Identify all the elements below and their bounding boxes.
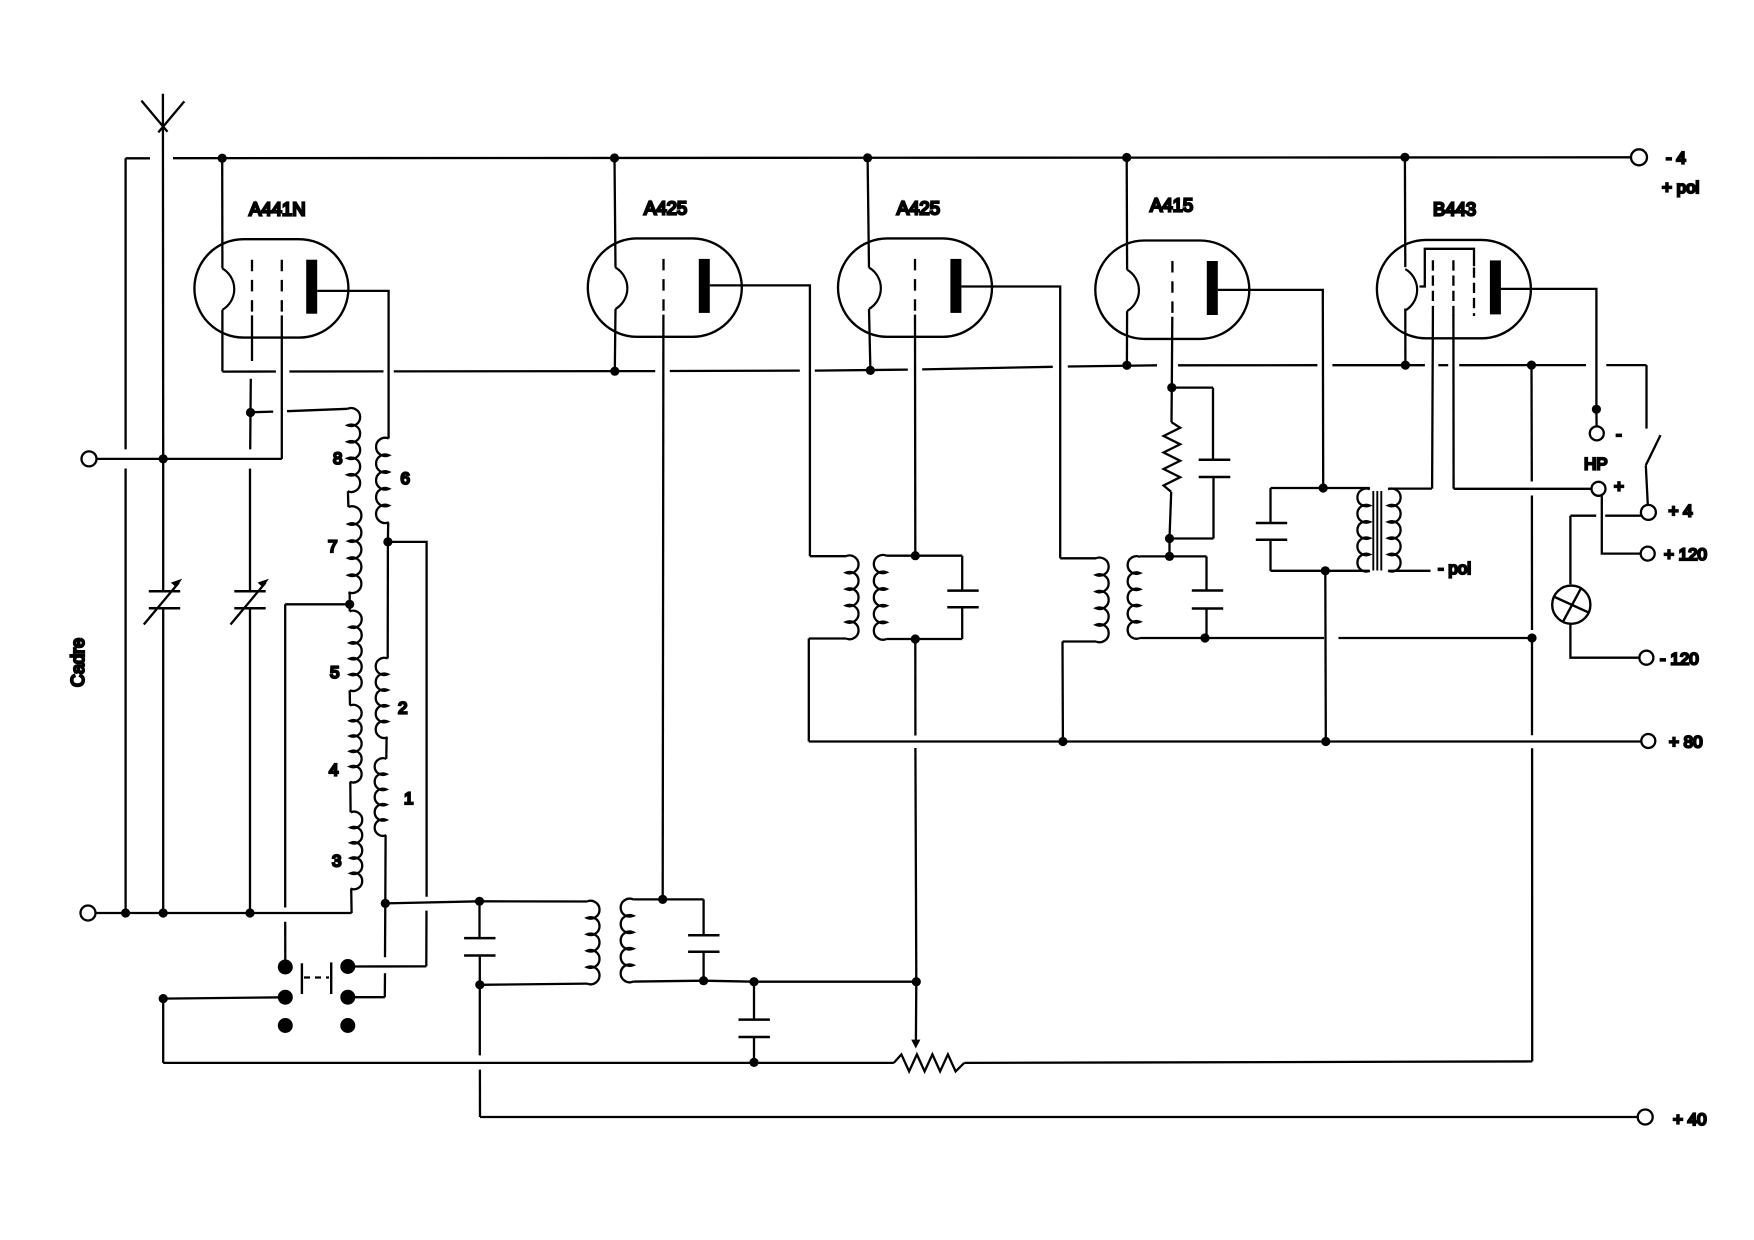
junction V3 grid / IFT1 secondary [911, 551, 920, 560]
svg-text:+ 40: + 40 [1673, 1110, 1707, 1129]
IFT2 primary top lead [1060, 557, 1096, 559]
coil 3 [351, 812, 363, 890]
IFT2 primary bottom lead [1063, 640, 1097, 642]
wire V3 filament bottom [869, 309, 870, 370]
junction tap 7/5 [345, 600, 354, 609]
AF coupling secondary top lead [633, 898, 703, 900]
wire +40 line [480, 1116, 1638, 1118]
wire IFT1 primary to +80 [808, 639, 810, 742]
svg-text:8: 8 [333, 449, 342, 468]
wire +80 line [809, 740, 1642, 742]
terminal cadre lower [81, 906, 96, 921]
grid leak resistor R1 [1170, 388, 1173, 423]
wire junction down to switch contact row [384, 903, 387, 957]
variable capacitor CV1 (antenna circuit) [162, 459, 164, 591]
wire bottom node to potentiometer arrow drop [754, 981, 916, 983]
variable capacitor CV2 (grid circuit) [249, 469, 251, 592]
AF transformer core [1372, 491, 1374, 571]
wire V1 grid1 to CV2 [249, 413, 252, 450]
wire V3 anode to IFT2 primary [961, 287, 1060, 559]
wire tap to reaction switch column [285, 603, 350, 605]
svg-text:A441N: A441N [249, 199, 306, 220]
terminal HP minus [1590, 426, 1604, 440]
tube V3 A425 grid 1 (dashed) [914, 259, 916, 315]
AF coupling primary bottom lead [480, 984, 587, 985]
tube V2 A425 envelope [588, 238, 742, 336]
wire filament bus to switch [1645, 365, 1647, 429]
tube V1 A441N anode plate [306, 260, 317, 314]
junction pot arrow wire [912, 977, 921, 986]
wire grid network to IFT2 secondary [1168, 539, 1170, 557]
svg-text:Cadre: Cadre [68, 638, 88, 687]
AF secondary top lead to B443 grid [1388, 487, 1432, 489]
node -4/+pol top supply bus [126, 157, 150, 159]
junction antenna / cadre upper wire [159, 454, 168, 463]
svg-text:+ 120: + 120 [1664, 545, 1707, 564]
svg-text:A425: A425 [644, 198, 687, 219]
tube V4 A415 grid 1 (dashed) [1171, 261, 1173, 317]
AF secondary bottom lead -pol [1388, 570, 1430, 572]
wire coil2-coil1 [385, 737, 388, 759]
AF transformer primary bottom lead [1271, 570, 1370, 572]
junction IFT2 bottom lead / right drop wire [1527, 633, 1536, 642]
coil 6 [376, 438, 389, 523]
junction CV1 column / B1 wire [159, 994, 168, 1003]
coil 2 [376, 658, 388, 738]
wire coil1 bottom [384, 835, 387, 903]
coupling secondary bottom lead [633, 981, 754, 982]
wire coil5-coil4 [349, 690, 352, 705]
switch link dashed coupling [304, 976, 329, 978]
wire V4 filament top [1126, 158, 1129, 270]
wire V1 filament bottom to filament bus [221, 310, 223, 372]
wire filament bus (cathode return) [222, 370, 276, 372]
svg-text:- 120: - 120 [1660, 650, 1699, 669]
junction filament bus / A425-2 [866, 366, 875, 375]
IFT1 primary top lead [810, 555, 846, 557]
tube V5 grid 2 (dashed) [1452, 260, 1454, 316]
tube V4 A415 filament (cathode) [1127, 270, 1139, 311]
junction A415 grid network / IFT2 secondary [1165, 552, 1174, 561]
wire V1 grid1 down [251, 315, 253, 361]
junction V4 grid / grid-leak [1167, 383, 1176, 392]
wire CV1 column to bottom bus [162, 999, 164, 1063]
wire V5 filament top [1404, 157, 1407, 267]
wire V4 grid down [1171, 317, 1174, 388]
IFT1 secondary top lead [887, 555, 963, 557]
dial lamp [1552, 586, 1590, 624]
svg-text:5: 5 [330, 663, 339, 682]
switch contact A1 [278, 960, 293, 975]
tube V5 screen-grid bracket [1420, 249, 1475, 287]
wire antenna lead-in (down to loop terminal wire) [162, 94, 165, 459]
wire V3 filament top [868, 158, 869, 268]
junction AF primary bottom / +80 drop [1321, 566, 1330, 575]
tube V5 B443 anode plate [1490, 260, 1501, 314]
wire bottom bus right part [964, 1061, 1532, 1063]
AF coupling coil primary [587, 901, 600, 985]
IFT1 primary winding [846, 555, 859, 639]
junction IFT1 secondary bottom / volume pot feed [911, 634, 920, 643]
junction coupling cap bottom [475, 980, 484, 989]
wire coil8-coil7 [347, 491, 350, 507]
junction coil6 / coil2 / reaction feed [383, 537, 392, 546]
wire contact B1 to CV1 column [163, 997, 285, 998]
tuning capacitor C-IFT2 [1205, 556, 1207, 590]
tube V2 A425 filament (cathode) [616, 268, 628, 309]
wire coil4-coil3 [349, 782, 352, 813]
svg-text:A415: A415 [1150, 195, 1193, 216]
wire V4 filament bottom [1126, 311, 1128, 365]
wire HP plus down to +120 [1602, 496, 1641, 554]
wire V5 grid2 down to HP+ [1452, 315, 1454, 489]
svg-text:- pol: - pol [1438, 559, 1471, 578]
wire coil7-coil5 with tap [349, 592, 351, 611]
terminal -4 [1631, 149, 1647, 165]
junction on anode drop [1592, 405, 1601, 414]
switch contact C1 [278, 1018, 293, 1033]
terminal HP plus [1592, 482, 1606, 496]
svg-text:+ pol: + pol [1662, 178, 1699, 197]
svg-text:3: 3 [332, 852, 341, 871]
terminal +120 [1641, 547, 1655, 561]
wire cadre upper to A441N grid2 [97, 458, 282, 460]
wire detector coupling top [385, 901, 479, 903]
svg-text:HP: HP [1584, 455, 1608, 474]
tube V3 A425 envelope [838, 238, 992, 336]
wire cadre lower bus [96, 912, 352, 914]
IFT1 secondary winding [874, 555, 887, 640]
terminal -120 [1639, 651, 1653, 665]
capacitor across AF primary [1269, 488, 1271, 523]
junction V4 anode / AF primary [1319, 483, 1328, 492]
junction filament bus / right drop wire [1527, 361, 1536, 370]
IFT2 primary winding [1096, 558, 1109, 643]
tube V4 A415 envelope [1095, 241, 1249, 339]
wire contact B2 to coil1 drop [348, 996, 385, 998]
wire +4 to dial lamp [1605, 515, 1641, 517]
grid capacitor C-grid A415 [1172, 386, 1213, 388]
tube V5 grid 3 (dashed) [1473, 268, 1475, 317]
tube V1 A441N envelope [194, 239, 348, 337]
tube V2 A425 anode plate [699, 259, 710, 313]
junction +80 / AF primary drop [1321, 737, 1330, 746]
terminal cadre upper [82, 451, 97, 466]
tube V3 A425 anode plate [950, 259, 961, 313]
junction filament bus / A415 [1122, 361, 1131, 370]
wire bottom return bus [163, 1062, 894, 1064]
wire V5 filament bottom [1404, 309, 1406, 366]
svg-text:6: 6 [401, 469, 410, 488]
svg-text:+: + [1614, 477, 1624, 496]
svg-text:7: 7 [328, 537, 337, 556]
junction IFT2 bottom / tuning cap [1200, 633, 1209, 642]
svg-text:1: 1 [404, 789, 413, 808]
switch contact B2 [340, 990, 355, 1005]
wire coil6 to junction [387, 522, 390, 542]
AF coupling coil secondary [621, 899, 634, 983]
coil 8 [348, 408, 361, 492]
wire V1 grid2 down to cadre terminal wire [281, 315, 283, 459]
svg-text:B443: B443 [1433, 199, 1476, 220]
coupling capacitor C-det [478, 901, 480, 938]
junction tuning cap 1 / lower bus [159, 908, 168, 917]
wire HP plus to V5 grid2 drop [1454, 488, 1592, 490]
coil 4 [350, 705, 362, 783]
AF transformer primary top lead [1271, 487, 1370, 489]
junction top bus / B443 filament [1400, 153, 1409, 162]
bypass capacitor C-byp [753, 982, 755, 1020]
IFT1 primary bottom lead [809, 637, 846, 639]
wire V1 filament top [221, 158, 223, 268]
tube V5 B443 filament (cathode) [1405, 269, 1417, 310]
coil 1 [375, 758, 387, 836]
wire V2 filament top [615, 158, 616, 268]
wire coil3 bottom to cadre bus [350, 889, 353, 913]
wire grid1 tap to coil 8 [251, 410, 274, 413]
junction V2 grid / coupling secondary [658, 895, 667, 904]
wire V5 anode to HP- [1500, 289, 1596, 409]
wire coil6-coil2 [387, 542, 389, 659]
tube V4 A415 anode plate [1207, 261, 1218, 315]
junction top bus / A425-2 filament [863, 153, 872, 162]
junction grid-leak bottom [1165, 534, 1174, 543]
svg-text:4: 4 [329, 761, 338, 780]
wire IFT1 bottom down to potentiometer arrow [914, 639, 916, 736]
IFT1 secondary bottom lead [887, 638, 963, 640]
junction V1 grid1 / coil-8 tap [246, 408, 255, 417]
IFT2 secondary winding [1128, 556, 1140, 639]
wire lamp to -120 [1570, 624, 1639, 658]
junction filament bus / A425-1 [610, 367, 619, 376]
switch link bars [301, 963, 303, 994]
junction +80 / IFT2 primary [1058, 737, 1067, 746]
wire tap column down to contact A1 [284, 604, 286, 907]
tube V2 A425 grid 1 (dashed) [662, 259, 664, 315]
potentiometer wiper arrow [915, 982, 918, 1042]
wire AF primary to +80 line [1324, 571, 1327, 742]
switch blade (open) [1646, 435, 1661, 465]
tube V5 B443 envelope [1377, 240, 1531, 338]
wire V5 grid1 down to AF secondary [1431, 316, 1434, 489]
wire contact A2 to coil2 drop [348, 965, 427, 967]
junction grid1 line / lower bus [245, 908, 254, 917]
junction top bus / A415 filament [1122, 153, 1131, 162]
terminal +4 [1641, 505, 1656, 520]
tube V1 A441N grid 2 (dashed) [281, 260, 283, 316]
svg-text:A425: A425 [897, 198, 940, 219]
junction coupling bottom / cap drop [699, 976, 708, 985]
wire V3 grid to IFT1 secondary [914, 315, 917, 556]
wire junction to right drop [388, 542, 427, 897]
svg-text:+ 80: + 80 [1669, 733, 1703, 752]
junction top bus / A425-1 filament [610, 153, 619, 162]
terminal +40 [1638, 1110, 1653, 1125]
junction top bus / A441N filament [218, 154, 227, 163]
junction bottom bus / bypass cap [749, 1058, 758, 1067]
potentiometer (rheostat) R-vol [894, 1054, 964, 1071]
tube V5 grid 1 (dashed) [1432, 260, 1434, 316]
terminal +80 [1641, 734, 1655, 748]
svg-text:2: 2 [398, 699, 407, 718]
wire right drop: filament bus to bottom bus [1530, 365, 1533, 481]
wire -4 rail down left side [124, 158, 126, 449]
junction filament bus / B443 [1401, 361, 1410, 370]
tube V1 A441N filament (cathode) [222, 268, 234, 309]
svg-text:-: - [1616, 425, 1622, 444]
junction coupling cap top [475, 897, 484, 906]
tuning capacitor C-IFT1 [961, 556, 963, 591]
switch contact A2 [340, 959, 355, 974]
junction left rail / lower bus [121, 908, 130, 917]
IFT2 secondary bottom long lead [1140, 637, 1324, 639]
tube V1 A441N grid 1 (dashed) [251, 260, 253, 316]
svg-text:- 4: - 4 [1666, 149, 1686, 168]
wire switch to +4 terminal [1646, 465, 1648, 505]
wire +40 riser [479, 985, 481, 1056]
antenna [141, 101, 167, 132]
tube V3 A425 filament (cathode) [869, 268, 881, 309]
switch contact B1 [278, 990, 293, 1005]
coil 5 [350, 611, 362, 691]
wire V2 filament bottom [614, 309, 617, 371]
wire V4 anode to AF transformer [1218, 290, 1323, 488]
wire V2 anode to IFT1 primary [710, 285, 810, 556]
AF transformer primary winding [1357, 489, 1369, 572]
junction coil1 / detector coupling [381, 899, 390, 908]
switch contact C2 [340, 1018, 355, 1033]
coil 7 [348, 506, 361, 593]
wire V1 anode to coil 6 [317, 291, 388, 439]
tuning capacitor C-coupling [702, 899, 704, 935]
AF transformer secondary winding [1388, 489, 1400, 572]
svg-text:+ 4: + 4 [1669, 502, 1693, 521]
junction bottom node / bypass cap [749, 977, 758, 986]
wire V2 grid down to AF coupling [662, 315, 665, 900]
wire IFT2 primary to +80 [1061, 642, 1064, 742]
IFT2 secondary top lead [1140, 555, 1207, 557]
